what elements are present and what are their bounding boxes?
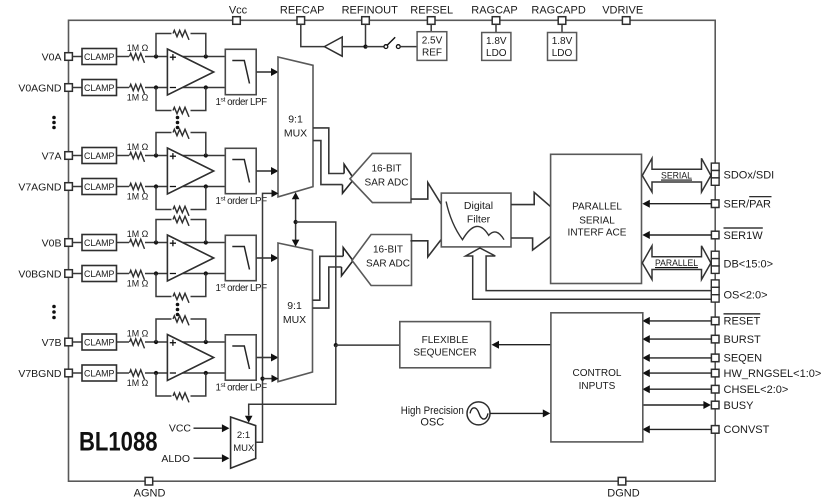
wire resistor to LPF V0A [145,56,225,58]
wire control to sequencer [498,344,551,346]
wire resistor to LPF V7B [145,341,225,343]
wire V0BGND to clamp [72,273,82,275]
lpf box V0 [225,235,256,280]
arrow BUSY out to pin [703,401,711,409]
node dot V7B b [204,340,208,344]
wire ALDO to 2:1 mux [194,457,222,459]
ellipsis dots mid group A [176,116,180,120]
pin V7BGND [65,369,73,377]
chip boundary border [69,20,716,481]
wire OS bus hollow arrow [466,248,712,299]
pin DB stack [711,251,719,258]
wire resistor to LPF V0BGND [145,273,225,275]
wire V7AGND to clamp [72,186,82,188]
svg-text:CLAMP: CLAMP [84,151,115,162]
node dot V0BGND b [204,271,208,275]
feedback resistor top V0B [156,220,172,243]
node dot V0B a [154,240,158,244]
svg-text:SERIAL: SERIAL [661,170,692,180]
wire 2:1 mux output up to muxes [256,193,272,442]
ellipsis dots mid group B [176,303,180,307]
wire RESET to control inputs [645,320,712,322]
wire control inputs to BUSY [643,404,704,406]
wire RAGCAP down [495,24,497,32]
wire V0AGND to clamp [72,87,82,89]
wire switch to 2.5V REF [400,46,417,48]
pin REFCAP [297,17,305,25]
resistor 1M V7AGND [130,183,145,193]
wire node to switch [366,46,385,48]
resistor 1M V7A [130,152,145,162]
pin V0A [65,53,73,61]
pin REFSEL [427,17,435,25]
arrow bus into ADC B [343,248,353,261]
lpf curve [232,61,249,84]
svg-text:SEQUENCER: SEQUENCER [413,348,476,359]
svg-text:PARALLEL: PARALLEL [655,258,698,268]
wire REFINOUT down [365,24,367,46]
wire resistor to LPF V7AGND [145,186,225,188]
arrow lpf to mux [271,167,279,175]
wire SER/PAR to interface [645,203,712,205]
arrow bus into ADC A [344,164,354,179]
svg-text:SERIAL: SERIAL [579,215,615,226]
svg-text:1M Ω: 1M Ω [127,229,149,240]
svg-text:LDO: LDO [552,48,573,59]
feedback resistor bottom V7AGND [156,187,172,210]
op-amp V7 driver [167,148,213,194]
node dot V7B a [154,340,158,344]
resistor 1M V0B [130,239,145,249]
svg-text:CLAMP: CLAMP [84,238,115,249]
resistor 1M V0A [130,53,145,63]
resistor 1M V0AGND [130,84,145,94]
node dot V0AGND b [204,85,208,89]
svg-text:CLAMP: CLAMP [84,337,115,348]
node dot V7A b [204,153,208,157]
wire mux B out 1 [313,256,344,300]
overline RESET [724,313,761,315]
wire branch to mux B 9th input [263,378,272,380]
arrow SEQEN into control inputs [642,354,650,362]
arrow BURST into control inputs [642,335,650,343]
mux B 9:1 [278,243,313,382]
node dot V0B b [204,240,208,244]
pin HW_RNGSEL&lt;1:0&gt; [711,369,719,377]
svg-text:1M Ω: 1M Ω [127,93,149,104]
wire REFCAP to buffer output [301,24,325,46]
feedback resistor bottom V7BGND [156,373,172,396]
wire filter to interface top [511,192,551,206]
pin REFINOUT [362,17,370,25]
op-amp V0 driver [167,49,213,95]
oscillator circle [467,402,490,425]
wire V0A to clamp [72,56,82,58]
pin DGND [618,477,626,485]
block 2.5V REF [417,32,447,61]
switch contact left [384,45,388,49]
svg-text:SAR ADC: SAR ADC [366,259,410,270]
wire lpf to mux [256,257,272,259]
wire clamp to resistor V0A [117,56,130,58]
svg-text:V7B: V7B [42,337,62,349]
wire CONVST to control inputs [645,428,712,430]
svg-text:PARALLEL: PARALLEL [572,201,622,212]
wire V7BGND to clamp [72,372,82,374]
block 1.8V LDO digital [548,33,577,61]
svg-text:BURST: BURST [724,334,762,346]
switch blade [387,37,395,45]
svg-text:CLAMP: CLAMP [84,269,115,280]
node REFINOUT junction [363,45,367,49]
pin RAGCAPD [558,17,566,25]
node dot V0A b [204,54,208,58]
ellipsis dots left group A [52,116,56,120]
pin BUSY [711,401,719,409]
node dot V7BGND a [154,371,158,375]
pin SDOx/SDI stack [711,163,719,170]
clamp box V0BGND [82,266,117,282]
pin V7B [65,338,73,346]
arrow lpf to mux [271,354,279,362]
svg-text:DB<15:0>: DB<15:0> [724,259,774,271]
svg-text:RESET: RESET [724,316,761,328]
wire lpf to mux [256,71,272,73]
digital filter box [441,193,511,247]
wire VCC to 2:1 mux [194,427,222,429]
op-amp plus input [170,155,176,157]
wire V0B to clamp [72,242,82,244]
pin VDRIVE [622,17,630,25]
clamp box V7BGND [82,365,117,381]
arrow VCC into mux [222,424,230,432]
lpf curve [232,160,249,183]
pin CONVST [711,426,719,434]
node dot V0AGND a [154,85,158,89]
node dot V7BGND b [204,371,208,375]
svg-text:LDO: LDO [486,48,507,59]
node dot V0A a [154,54,158,58]
svg-text:16-BIT: 16-BIT [373,245,403,256]
clamp box V0A [82,49,117,65]
op-amp minus input [170,186,176,188]
svg-text:CLAMP: CLAMP [84,52,115,63]
pin AGND [145,477,153,485]
pin BURST [711,335,719,343]
pin RESET [711,317,719,325]
adc A 16-bit SAR [350,153,411,202]
svg-text:V0AGND: V0AGND [18,82,62,94]
clamp box V7B [82,334,117,350]
svg-text:INTERF ACE: INTERF ACE [568,227,627,238]
svg-text:V0BGND: V0BGND [18,268,62,280]
resistor 1M V7BGND [130,370,145,380]
arrow HW_RNGSEL&lt;1:0&gt; into control inputs [642,369,650,377]
node dot between muxes [294,220,298,224]
op-amp V7 driver [167,335,213,381]
svg-text:SER1W: SER1W [724,230,764,242]
arrow CONVST into control inputs [642,425,650,433]
svg-text:9:1: 9:1 [287,300,302,312]
adc B 16-bit SAR [352,235,412,286]
block 1.8V LDO analog [482,33,511,61]
control inputs box [551,313,643,442]
feedback resistor bottom V0BGND [156,274,172,297]
svg-text:V0A: V0A [42,51,62,63]
svg-text:1M Ω: 1M Ω [127,279,149,290]
node dot V7A a [154,153,158,157]
arrow osc into control inputs [543,409,551,417]
svg-text:RAGCAPD: RAGCAPD [531,5,585,17]
overline SER1W [724,227,763,229]
svg-text:REF: REF [422,48,442,59]
svg-text:1M Ω: 1M Ω [127,142,149,153]
resistor 1M V0BGND [130,270,145,280]
lpf curve [232,346,249,369]
wire clamp to resistor V0AGND [117,87,130,89]
arrow RESET into control inputs [642,317,650,325]
svg-text:OSC: OSC [420,417,444,429]
arrow CHSEL&lt;2:0&gt; into control inputs [642,385,650,393]
svg-text:SEQEN: SEQEN [724,353,763,365]
svg-text:V7BGND: V7BGND [18,368,62,380]
svg-text:CLAMP: CLAMP [84,182,115,193]
wire HW_RNGSEL&lt;1:0&gt; to control inputs [645,372,712,374]
svg-text:MUX: MUX [284,128,307,140]
feedback resistor top V7A [156,133,172,156]
svg-text:V7A: V7A [42,150,62,162]
svg-text:OS<2:0>: OS<2:0> [724,289,768,301]
lpf curve [232,247,249,270]
arrow lpf to mux [271,254,279,262]
block arrow SERIAL [642,158,711,192]
svg-text:CLAMP: CLAMP [84,368,115,379]
node dot 9th input branch [260,377,264,381]
svg-text:REFSEL: REFSEL [410,5,453,17]
svg-text:ALDO: ALDO [161,453,190,465]
node dot V7AGND b [204,184,208,188]
svg-text:BL1088: BL1088 [79,427,158,457]
wire REFSEL down [430,24,432,31]
feedback resistor top V0A [156,34,172,57]
arrow ALDO into mux [222,454,230,462]
wire resistor to LPF V7BGND [145,372,225,374]
svg-text:Vcc: Vcc [229,5,248,17]
svg-text:V0B: V0B [42,237,62,249]
svg-text:BUSY: BUSY [724,400,755,412]
svg-text:1.8V: 1.8V [486,36,507,47]
arrow down into mux B [292,240,300,247]
svg-text:SAR ADC: SAR ADC [365,178,409,189]
wire SER1W to interface [645,234,712,236]
svg-text:Digital: Digital [464,200,493,212]
clamp box V0AGND [82,80,117,96]
svg-text:1M Ω: 1M Ω [127,192,149,203]
wire SEQEN to control inputs [645,357,712,359]
svg-text:Filter: Filter [467,214,491,226]
svg-text:RAGCAP: RAGCAP [471,5,517,17]
svg-text:MUX: MUX [283,314,306,326]
wire resistor to LPF V0AGND [145,87,225,89]
wire branch to flexible sequencer [336,344,400,346]
pin RAGCAP [492,17,500,25]
feedback resistor top V7B [156,319,172,342]
arrow 9th input into mux B [272,375,279,383]
wire resistor to LPF V0B [145,242,225,244]
arrow SER/PAR into interface [642,200,650,208]
wire clamp to resistor V0B [117,242,130,244]
svg-text:AGND: AGND [134,488,166,500]
switch contact right [396,45,400,49]
wire clamp to resistor V0BGND [117,273,130,275]
buffer amplifier [324,37,342,56]
feedback resistor bottom V0AGND [156,88,172,111]
svg-text:2.5V: 2.5V [422,36,443,47]
svg-text:MUX: MUX [233,443,255,454]
wire mux A out 2 [313,141,343,185]
svg-text:VCC: VCC [169,422,192,434]
overline PAR [749,196,771,198]
op-amp minus input [170,87,176,89]
svg-text:HW_RNGSEL<1:0>: HW_RNGSEL<1:0> [724,368,822,380]
clamp box V7AGND [82,179,117,195]
svg-text:VDRIVE: VDRIVE [602,5,643,17]
wire RAGCAPD down [561,24,563,32]
wire mux B out 2 [313,267,342,308]
svg-text:CLAMP: CLAMP [84,83,115,94]
svg-text:DGND: DGND [607,488,639,500]
wire osc to control inputs [490,412,544,414]
wire adc A to digital filter [411,183,442,205]
mux 2:1 [231,417,256,468]
svg-text:1M Ω: 1M Ω [127,43,149,54]
svg-text:SDOx/SDI: SDOx/SDI [724,170,775,182]
svg-text:SER/PAR: SER/PAR [724,199,772,211]
wire lpf to mux [256,357,272,359]
svg-text:CONVST: CONVST [724,424,770,436]
op-amp plus input [170,242,176,244]
pin V7A [65,152,73,160]
wire V7A to clamp [72,155,82,157]
pin OS stack [711,280,719,287]
svg-text:16-BIT: 16-BIT [371,164,401,175]
wire filter to interface bottom [511,236,551,250]
wire clamp to resistor V7B [117,341,130,343]
pin CHSEL&lt;2:0&gt; [711,385,719,393]
svg-text:INPUTS: INPUTS [579,381,616,392]
resistor 1M V7B [130,339,145,349]
wire buffer input to REFINOUT node [342,46,365,48]
svg-text:CONTROL: CONTROL [573,368,622,379]
arrow into 2:1 mux top [245,416,253,423]
op-amp minus input [170,372,176,374]
mux A 9:1 [278,57,313,197]
ellipsis dots left group B [52,305,56,309]
arrow lpf to mux [271,68,279,76]
parallel serial interface box [551,154,642,283]
svg-text:High Precision: High Precision [401,405,464,417]
svg-text:1.8V: 1.8V [552,36,573,47]
lpf box V0 [225,49,256,94]
lpf box V7 [225,335,256,380]
pin SEQEN [711,354,719,362]
pin V0AGND [65,84,73,92]
pin V0BGND [65,270,73,278]
svg-text:9:1: 9:1 [288,114,303,126]
wire resistor to LPF V7A [145,155,225,157]
svg-text:CHSEL<2:0>: CHSEL<2:0> [724,384,789,396]
wire mux A out 1 [313,128,344,174]
arrow into sequencer [492,341,500,349]
op-amp V0 driver [167,235,213,281]
node dot V0BGND a [154,271,158,275]
op-amp plus input [170,56,176,58]
wire mux node to sequencer branch [296,222,336,345]
svg-text:V7AGND: V7AGND [18,181,62,193]
clamp box V7A [82,148,117,164]
block arrow PARALLEL [642,246,711,280]
wire shared input between muxes [295,198,297,246]
pin SER/PAR [711,200,719,208]
svg-text:2:1: 2:1 [237,430,250,441]
pin SER1W [711,231,719,239]
node dot sequencer branch [334,343,338,347]
pin V7AGND [65,183,73,191]
wire BURST to control inputs [645,338,712,340]
svg-text:REFINOUT: REFINOUT [342,5,399,17]
svg-text:1M Ω: 1M Ω [127,378,149,389]
node dot V7AGND a [154,184,158,188]
arrow 9th input into mux A [272,190,279,198]
wire V7B to clamp [72,341,82,343]
wire lpf to mux [256,170,272,172]
filter response curve [446,202,504,240]
wire CHSEL&lt;2:0&gt; to control inputs [645,388,712,390]
pin V0B [65,239,73,247]
svg-text:FLEXIBLE: FLEXIBLE [422,335,469,346]
wire branch down to 2:1 mux [249,345,336,415]
lpf box V7 [225,148,256,193]
wire clamp to resistor V7BGND [117,372,130,374]
arrow up into mux A [292,192,300,199]
svg-text:REFCAP: REFCAP [280,5,325,17]
op-amp plus input [170,342,176,344]
clamp box V0B [82,235,117,251]
wire clamp to resistor V7A [117,155,130,157]
wire adc B to digital filter [410,240,441,257]
pin Vcc [233,17,241,25]
svg-text:1M Ω: 1M Ω [127,329,149,340]
op-amp minus input [170,273,176,275]
oscillator sine wave [470,408,488,419]
flexible sequencer box [400,322,491,368]
arrow SER1W into interface [642,231,650,239]
wire clamp to resistor V7AGND [117,186,130,188]
